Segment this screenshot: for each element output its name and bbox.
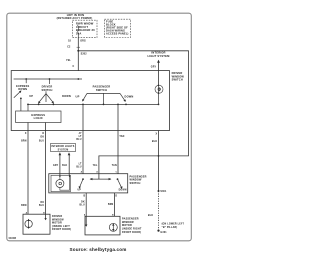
- svg-text:FRONT DOOR): FRONT DOOR): [52, 228, 71, 231]
- labels passenger switch up down: [76, 85, 134, 99]
- svg-text:S301: S301: [160, 191, 167, 193]
- svg-text:INTERIOR: INTERIOR: [151, 51, 165, 55]
- breaker value label: [76, 22, 95, 36]
- svg-text:LT: LT: [79, 136, 82, 138]
- svg-text:C2: C2: [67, 47, 71, 49]
- svg-text:SWITCH: SWITCH: [172, 78, 183, 82]
- express logic module: [16, 111, 61, 123]
- svg-text:EXPRESS: EXPRESS: [31, 113, 45, 117]
- driver master switch box U1: [11, 71, 169, 131]
- svg-text:DK: DK: [41, 202, 45, 204]
- passenger switch rocker: [82, 178, 84, 180]
- arrow GRY up to interior lights: [59, 152, 62, 155]
- junction dot BLK x ORG: [158, 155, 160, 157]
- svg-text:X: X: [155, 134, 157, 136]
- circuit breaker CB (dashed box): [73, 20, 98, 37]
- svg-text:SWITCH: SWITCH: [96, 88, 107, 92]
- connector C2 tick: [77, 46, 80, 48]
- svg-text:BLK: BLK: [62, 165, 67, 167]
- svg-text:BLK: BLK: [148, 215, 153, 217]
- wire LT BLU passenger up-feed from master: [82, 104, 84, 173]
- svg-text:0464B: 0464B: [9, 237, 17, 240]
- internal power bus: [14, 78, 82, 80]
- svg-text:BRN: BRN: [21, 141, 27, 143]
- wire BLK from bulb to ground: [158, 131, 160, 192]
- svg-text:B: B: [84, 195, 86, 197]
- svg-text:BRN: BRN: [21, 205, 27, 207]
- illumination bulb L1 (driver switch): [155, 85, 163, 93]
- svg-text:ACCESS PANEL): ACCESS PANEL): [106, 33, 129, 36]
- connector pins driver motor: [26, 211, 46, 214]
- svg-text:O: O: [42, 133, 44, 135]
- svg-text:DOWN: DOWN: [62, 94, 71, 98]
- svg-text:UP: UP: [78, 189, 82, 191]
- wire BLK bulb ground: [68, 155, 70, 176]
- svg-text:(ON LOWER LEFT: (ON LOWER LEFT: [162, 224, 185, 226]
- arrow up to interior light system: [157, 60, 160, 63]
- wire express switch to logic: [20, 98, 22, 111]
- wire GRY bulb feed: [59, 155, 61, 176]
- YEL wire stub into switch: [98, 174, 100, 179]
- svg-text:LOGIC: LOGIC: [34, 116, 43, 120]
- svg-text:C: C: [73, 66, 75, 68]
- svg-text:SWITCH: SWITCH: [41, 88, 52, 92]
- driver switch: [49, 79, 51, 84]
- stub contact line into logic box: [27, 104, 29, 111]
- driver window motor box M1: [23, 214, 50, 234]
- passenger window motor box M2: [85, 216, 120, 235]
- wire labels GRY BLK: [53, 165, 68, 167]
- wire labels 18 ORG C2 YEL C: [66, 41, 86, 68]
- svg-text:YEL: YEL: [66, 60, 71, 62]
- labels BLK and B-pillar note: [148, 215, 185, 229]
- svg-text:UP: UP: [29, 94, 33, 98]
- svg-text:"B" PILLAR): "B" PILLAR): [162, 226, 178, 229]
- splice S202: [77, 50, 79, 52]
- wire labels J7 LT BLU TAN YEL: [76, 133, 124, 168]
- wire ORG from breaker down: [77, 38, 79, 71]
- svg-text:BLK: BLK: [152, 141, 157, 143]
- svg-text:20A: 20A: [76, 32, 81, 36]
- svg-text:A: A: [81, 171, 83, 174]
- svg-text:TAN: TAN: [119, 135, 124, 138]
- svg-text:LIGHT SYSTEM: LIGHT SYSTEM: [147, 54, 170, 58]
- motor M1 symbol: [25, 220, 32, 227]
- splice S301: [158, 190, 160, 192]
- svg-text:Source: shelbytyga.com: Source: shelbytyga.com: [69, 247, 126, 252]
- svg-text:LT: LT: [79, 164, 82, 166]
- fuse block label (dashed box): [105, 19, 131, 37]
- svg-text:G301: G301: [160, 232, 167, 234]
- wire BRN driver motor up-feed: [27, 123, 29, 215]
- wire stub inside motor box: [45, 214, 47, 219]
- label passenger window motor: [122, 218, 142, 234]
- switch diagonals: [79, 179, 83, 188]
- interior lights system box (middle left): [51, 144, 76, 152]
- svg-text:J7: J7: [79, 133, 82, 135]
- wire DK BLU passenger motor: [85, 193, 87, 216]
- wire GRY down into switch box: [158, 62, 160, 85]
- svg-text:TAN: TAN: [112, 164, 117, 167]
- svg-text:YEL: YEL: [93, 165, 98, 167]
- svg-text:X: X: [25, 133, 27, 135]
- svg-text:DK: DK: [81, 201, 85, 203]
- bulb box (passenger switch illumination): [51, 175, 70, 191]
- svg-text:GRY: GRY: [151, 67, 157, 69]
- svg-text:SYSTEM: SYSTEM: [58, 149, 69, 151]
- svg-text:BLU: BLU: [39, 205, 44, 207]
- motor M2 symbol: [109, 223, 117, 231]
- breaker symbol: [77, 25, 78, 33]
- svg-text:D: D: [115, 195, 117, 197]
- svg-text:BLU: BLU: [80, 204, 85, 206]
- svg-text:BLU: BLU: [76, 167, 81, 169]
- connector marks below master box: [21, 133, 44, 207]
- svg-text:18: 18: [68, 41, 71, 43]
- labels UP DOWN: [78, 189, 127, 191]
- express down switch: [25, 79, 27, 83]
- contact line: [28, 103, 159, 105]
- double arrow: [90, 178, 111, 180]
- passenger window switch box U2: [49, 174, 128, 193]
- wire BLK dashed to ground: [158, 191, 160, 230]
- label driver window switch: [172, 71, 185, 82]
- hot-in-run header text: [57, 13, 93, 20]
- bus junction dots: [25, 78, 27, 80]
- svg-text:DOWN: DOWN: [18, 87, 27, 91]
- wire stub inside motor box: [85, 216, 87, 226]
- wire BRN passenger motor: [114, 193, 116, 216]
- interior light system (top right): [147, 51, 170, 58]
- svg-text:DK: DK: [41, 137, 45, 139]
- svg-text:SWITCH: SWITCH: [130, 182, 141, 185]
- connector pins A A C: [81, 171, 118, 174]
- svg-text:BLU: BLU: [76, 139, 81, 141]
- wire labels B D DK BLU BRN: [80, 195, 118, 206]
- svg-text:S202: S202: [81, 54, 88, 56]
- arrow BLK up to interior lights: [68, 152, 71, 155]
- svg-text:A: A: [96, 171, 98, 174]
- svg-text:(RETAINED ACCY POWER): (RETAINED ACCY POWER): [57, 17, 93, 20]
- ground G301: [157, 230, 159, 232]
- svg-text:GRY: GRY: [53, 165, 59, 167]
- wire BLU driver motor down-feed: [45, 123, 47, 215]
- wire TAN passenger down-feed from master: [117, 104, 119, 173]
- svg-text:INTERIOR LIGHTS: INTERIOR LIGHTS: [51, 146, 74, 148]
- svg-text:DOWN: DOWN: [125, 94, 134, 98]
- svg-text:FRONT DOOR): FRONT DOOR): [122, 231, 141, 234]
- wire ORG run to right side and down to passenger feed: [78, 51, 188, 174]
- svg-text:ORG: ORG: [80, 41, 86, 43]
- connector pins passenger motor: [84, 214, 114, 217]
- illumination bulb L2: [56, 180, 64, 188]
- switch bar: [87, 92, 120, 94]
- label driver window motor: [52, 215, 71, 231]
- svg-text:UP: UP: [76, 95, 80, 99]
- svg-text:BRN: BRN: [108, 204, 114, 206]
- svg-text:DOWN: DOWN: [119, 189, 127, 191]
- outer page border frame: [7, 13, 192, 241]
- wire labels X BLK: [152, 134, 158, 143]
- svg-text:BLU: BLU: [39, 141, 44, 143]
